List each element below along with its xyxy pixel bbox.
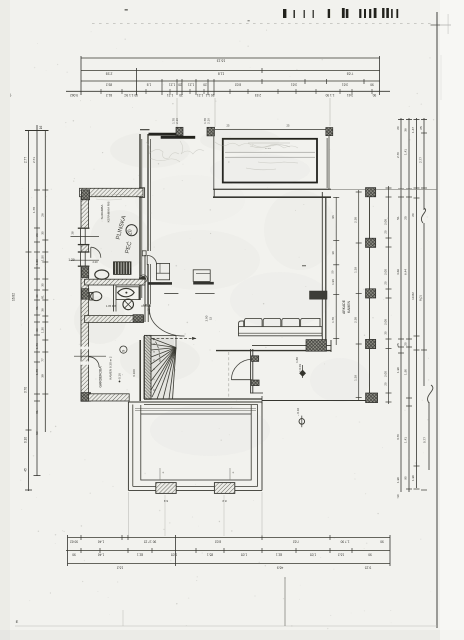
left dimension ticks — [26, 190, 49, 430]
west double wall of kitchen (pantry right wall) — [140, 134, 151, 305]
garderoba bottom hatched wall — [89, 394, 130, 401]
svg-text:10.82: 10.82 — [411, 292, 415, 300]
east wall tick — [302, 265, 306, 267]
svg-text:15: 15 — [209, 317, 213, 320]
right dimension labels (rotated) — [396, 126, 427, 498]
svg-text:36: 36 — [404, 128, 408, 132]
living north double wall — [213, 189, 437, 197]
veranda edge line — [262, 396, 366, 404]
svg-text:2.00: 2.00 — [383, 371, 387, 377]
svg-text:9.15: 9.15 — [365, 566, 372, 570]
svg-text:51: 51 — [396, 216, 400, 220]
svg-text:7.63: 7.63 — [347, 72, 354, 76]
svg-text:85.1: 85.1 — [207, 553, 213, 557]
plinska pec text — [116, 215, 134, 254]
minus 0.16 mark — [118, 373, 122, 383]
terrace top tiny labels — [227, 124, 290, 128]
west wall window 1 — [71, 228, 100, 245]
terrace right inner line — [326, 138, 328, 188]
svg-text:3.61: 3.61 — [347, 93, 353, 97]
bath bottom hatched wall — [85, 316, 144, 323]
svg-text:1.90: 1.90 — [404, 369, 408, 375]
circled number 6 — [120, 346, 127, 353]
svg-text:9.062: 9.062 — [70, 93, 78, 97]
bath top hatched wall — [85, 279, 146, 285]
svg-text:82.1: 82.1 — [137, 553, 143, 557]
arcade column 3 — [366, 289, 376, 298]
furnace box — [114, 262, 132, 275]
svg-text:26: 26 — [35, 233, 39, 237]
svg-text:82.1: 82.1 — [276, 553, 282, 557]
terrace2 top wall — [128, 399, 262, 405]
svg-text:− 0.10: − 0.10 — [296, 408, 300, 417]
faint hall line — [228, 352, 230, 398]
smudge stairs — [146, 336, 174, 398]
svg-text:90 17 15: 90 17 15 — [144, 539, 157, 543]
svg-text:1.1 90: 1.1 90 — [325, 93, 334, 97]
pantry door arc — [91, 247, 101, 258]
arcade line — [369, 197, 371, 393]
stair side hatched band — [144, 335, 151, 399]
north wall corner stub — [140, 129, 150, 131]
washer circle — [123, 299, 134, 310]
svg-text:1.90: 1.90 — [396, 367, 400, 373]
north wall window bar A — [149, 133, 178, 136]
svg-text:4.66: 4.66 — [396, 269, 400, 275]
svg-text:81.2: 81.2 — [106, 93, 112, 97]
terrace2 step 1 — [156, 483, 176, 503]
sink — [116, 287, 139, 300]
cabinet next to furnace — [156, 263, 169, 279]
svg-text:16.13: 16.13 — [217, 59, 226, 63]
bottom dimension ticks — [68, 535, 391, 566]
svg-text:36: 36 — [35, 328, 39, 332]
svg-text:7.62: 7.62 — [293, 539, 299, 543]
edge vignette — [0, 0, 10, 640]
svg-text:2.16: 2.16 — [207, 118, 211, 124]
svg-text:90: 90 — [72, 553, 76, 557]
fireplace pier — [306, 340, 327, 352]
column P2 — [207, 127, 215, 136]
svg-text:1.46: 1.46 — [98, 539, 104, 543]
arcade column 1 — [366, 188, 376, 197]
svg-text:2.38: 2.38 — [354, 217, 358, 223]
svg-text:1.50: 1.50 — [41, 255, 45, 261]
svg-text:81: 81 — [35, 306, 39, 310]
svg-text:20: 20 — [178, 82, 182, 86]
svg-text:2.16: 2.16 — [175, 118, 179, 124]
kitchen counter dark bar 1 — [148, 282, 172, 285]
bath interior partition — [114, 285, 117, 312]
svg-text:8.02: 8.02 — [215, 539, 221, 543]
svg-text:1.47: 1.47 — [411, 127, 415, 133]
svg-text:1.46: 1.46 — [98, 553, 104, 557]
svg-text:1.05: 1.05 — [241, 553, 247, 557]
east wall window blob — [310, 291, 328, 299]
west wall dark corner block — [81, 190, 89, 200]
svg-text:2.77: 2.77 — [23, 157, 27, 163]
svg-text:36: 36 — [41, 308, 45, 312]
arcade column 4 — [366, 339, 376, 348]
svg-text:ARKADE: ARKADE — [342, 299, 346, 314]
svg-text:20: 20 — [404, 342, 408, 346]
arcade dim line right — [383, 186, 391, 404]
svg-text:20: 20 — [396, 126, 400, 130]
terrace2 deck lines — [135, 408, 256, 410]
svg-text:5.77: 5.77 — [423, 437, 427, 443]
svg-text:16.82: 16.82 — [12, 293, 16, 301]
svg-text:45: 45 — [23, 468, 27, 472]
svg-text:90 1.1 5C: 90 1.1 5C — [123, 93, 138, 97]
arkade kamen label — [342, 299, 351, 314]
spot symbol diamond — [298, 364, 306, 378]
spot symbol circle — [296, 408, 305, 428]
garderoba east wall — [140, 336, 144, 401]
wc toilet — [90, 292, 102, 301]
west hatched wall — [81, 197, 89, 402]
bath wall end block — [133, 315, 143, 322]
svg-text:1.21: 1.21 — [169, 82, 175, 86]
svg-text:2.70: 2.70 — [396, 152, 400, 158]
svg-text:30: 30 — [331, 251, 335, 255]
label 2.90 — [205, 315, 213, 321]
svg-text:20: 20 — [383, 281, 387, 285]
bottom page marks — [10, 93, 437, 626]
svg-text:1.05: 1.05 — [310, 553, 316, 557]
svg-text:1.90: 1.90 — [411, 475, 415, 481]
left dimension chain lines — [25, 125, 49, 491]
svg-text:1.21: 1.21 — [188, 82, 194, 86]
svg-text:3.70: 3.70 — [23, 387, 27, 393]
svg-text:16.2: 16.2 — [338, 553, 344, 557]
terrace2 inner rect — [141, 414, 251, 480]
svg-text:89.2: 89.2 — [106, 82, 112, 86]
svg-text:16.2: 16.2 — [117, 566, 124, 570]
top dimension chain lines — [66, 58, 390, 91]
svg-text:30: 30 — [41, 231, 45, 235]
column P1 — [176, 127, 183, 135]
svg-text:1.41: 1.41 — [404, 437, 408, 443]
terrace2 small ticks — [160, 468, 234, 480]
hall door leaf — [231, 379, 251, 381]
hall door leaf — [149, 305, 184, 337]
top dimension labels (upside-down) — [70, 59, 376, 97]
paper mottle — [74, 128, 370, 456]
hall upper door arc — [147, 255, 156, 264]
svg-text:38: 38 — [41, 374, 45, 378]
faint extension lines above plan — [177, 98, 330, 127]
svg-text:2.90: 2.90 — [205, 315, 209, 321]
svg-text:50: 50 — [35, 431, 39, 435]
svg-text:1.96: 1.96 — [331, 279, 335, 285]
svg-text:8.3: 8.3 — [222, 499, 227, 503]
svg-text:1.78: 1.78 — [35, 369, 39, 375]
svg-text:2.00: 2.00 — [383, 269, 387, 275]
west wall dark block 3 — [82, 268, 89, 278]
svg-text:90: 90 — [368, 553, 372, 557]
svg-text:1.30: 1.30 — [41, 327, 45, 333]
svg-text:2.08: 2.08 — [383, 219, 387, 225]
svg-text:0.10: 0.10 — [23, 437, 27, 443]
svg-text:1.39: 1.39 — [354, 267, 358, 273]
veranda corner column — [366, 393, 378, 403]
svg-text:90.: 90. — [372, 93, 377, 97]
svg-text:1.21: 1.21 — [197, 93, 203, 97]
svg-text:20: 20 — [383, 382, 387, 386]
svg-text:16: 16 — [39, 126, 43, 130]
pencil smudge below north windows — [146, 141, 298, 162]
svg-text:25: 25 — [419, 126, 423, 130]
svg-text:90 62: 90 62 — [70, 539, 78, 543]
stair tread numbers — [152, 343, 156, 391]
svg-text:77: 77 — [41, 358, 45, 362]
svg-text:8.3: 8.3 — [164, 499, 169, 503]
right dimension chain lines — [401, 118, 429, 492]
bottom dimension chain lines — [66, 538, 390, 564]
svg-text:+: + — [232, 471, 234, 475]
west wall dark block 4 — [82, 289, 89, 300]
circled 20 — [126, 225, 137, 236]
right dimension ticks — [398, 120, 427, 491]
svg-text:90: 90 — [370, 82, 374, 86]
svg-text:38: 38 — [71, 231, 75, 235]
label 1.80 L — [143, 303, 151, 311]
top scanner tick marks — [283, 8, 398, 18]
svg-text:1.78: 1.78 — [32, 207, 36, 213]
svg-text:20: 20 — [383, 230, 387, 234]
svg-text:20: 20 — [203, 82, 207, 86]
page fold line — [431, 12, 452, 628]
top dimension ticks — [81, 56, 380, 95]
living south wall — [216, 340, 332, 352]
svg-text:6.44: 6.44 — [404, 269, 408, 275]
faint dotted scan line — [92, 23, 431, 25]
svg-text:2.93: 2.93 — [106, 72, 113, 76]
door hinge mark kitchen — [142, 251, 146, 256]
column labels — [172, 118, 211, 124]
pantry top hatched wall — [80, 188, 144, 196]
svg-text:1.05: 1.05 — [171, 553, 177, 557]
svg-text:|.: |. — [10, 93, 12, 97]
svg-text:1.7 90: 1.7 90 — [340, 539, 349, 543]
svg-text:46.9: 46.9 — [277, 566, 284, 570]
terrace2 step 2 — [214, 483, 234, 503]
couch — [239, 318, 323, 335]
svg-text:2.20: 2.20 — [92, 260, 98, 264]
north wall window bar B — [161, 136, 196, 139]
faint extension lines below plan — [129, 492, 263, 536]
svg-text:2.71: 2.71 — [32, 157, 36, 163]
terrace outer rect — [214, 130, 329, 190]
arcade dim line left — [354, 190, 362, 400]
right dimension break squiggles — [421, 208, 433, 403]
svg-text:81: 81 — [35, 410, 39, 414]
svg-text:2.77: 2.77 — [419, 157, 423, 163]
svg-text:−0.16: −0.16 — [118, 373, 122, 381]
west wall dark block 5 (garderoba corner) — [81, 393, 91, 402]
terrace2 inner side stubs — [141, 405, 251, 414]
hall door wall — [251, 349, 263, 394]
svg-text:90: 90 — [404, 476, 408, 480]
terrace inner lines — [225, 143, 315, 157]
svg-text:± 0.03: ± 0.03 — [298, 364, 302, 372]
svg-text:14: 14 — [147, 307, 150, 311]
svg-text:20: 20 — [179, 93, 183, 97]
terrace2 outer wall — [128, 402, 262, 490]
svg-text:3.70: 3.70 — [396, 434, 400, 440]
stair treads fan — [151, 336, 176, 399]
hall door arc — [231, 359, 251, 379]
svg-text:20: 20 — [411, 213, 415, 217]
svg-text:10: 10 — [396, 494, 400, 498]
svg-text:81: 81 — [41, 295, 45, 299]
svg-text:E: E — [16, 619, 19, 624]
kitchen counter 2 — [193, 270, 214, 283]
svg-text:1.41: 1.41 — [404, 149, 408, 155]
terrace inner rect — [223, 139, 317, 183]
svg-text:90: 90 — [380, 539, 384, 543]
bath east wall — [145, 255, 148, 322]
svg-text:GARDEROBA: GARDEROBA — [99, 366, 103, 388]
svg-text:KAMEN: KAMEN — [347, 300, 351, 313]
bottom dimension labels (upside-down) — [70, 539, 384, 569]
interior dim line x336 — [331, 197, 340, 345]
flue circle — [140, 276, 146, 282]
svg-text:1.21: 1.21 — [167, 93, 173, 97]
svg-text:3.61: 3.61 — [291, 82, 297, 86]
svg-text:2.93: 2.93 — [255, 93, 261, 97]
bath labels — [92, 260, 151, 308]
svg-text:1.70: 1.70 — [331, 317, 335, 323]
svg-text:KAMEN 9.30 m 2: KAMEN 9.30 m 2 — [108, 356, 112, 380]
svg-text:+: + — [162, 471, 164, 475]
svg-text:26: 26 — [41, 213, 45, 217]
svg-text:11.8: 11.8 — [218, 72, 224, 76]
svg-text:30: 30 — [41, 283, 45, 287]
svg-text:2.08: 2.08 — [383, 319, 387, 325]
arcade column 2 — [366, 238, 376, 247]
smudge top of pantry — [90, 194, 134, 200]
svg-text:1.80: 1.80 — [295, 357, 299, 363]
short lines above hall — [164, 292, 214, 294]
hall door jamb bottom — [252, 380, 260, 386]
smudge terrace interior — [246, 145, 298, 170]
svg-text:3.61: 3.61 — [342, 82, 348, 86]
boiler oval — [95, 270, 109, 279]
walk line with arrow — [152, 337, 197, 362]
svg-text:2.38: 2.38 — [354, 317, 358, 323]
svg-text:8.02: 8.02 — [235, 82, 241, 86]
living east wall — [322, 192, 326, 345]
svg-text:25: 25 — [396, 343, 400, 347]
wall junction block — [140, 188, 145, 198]
svg-text:90 1.1: 90 1.1 — [205, 93, 214, 97]
svg-text:1.76: 1.76 — [35, 343, 39, 349]
svg-text:30: 30 — [383, 331, 387, 335]
svg-text:1.8: 1.8 — [147, 82, 152, 86]
left dimension labels (rotated) — [12, 126, 75, 472]
garderoba door opening — [74, 347, 106, 367]
terrace corner column — [326, 128, 333, 136]
west wall window 2 — [71, 252, 100, 267]
svg-text:1.50: 1.50 — [35, 259, 39, 265]
stray top specks — [125, 9, 449, 34]
hall door jamb top — [252, 356, 259, 362]
svg-text:25: 25 — [404, 216, 408, 220]
svg-text:1.90: 1.90 — [396, 477, 400, 483]
svg-text:30: 30 — [35, 294, 39, 298]
